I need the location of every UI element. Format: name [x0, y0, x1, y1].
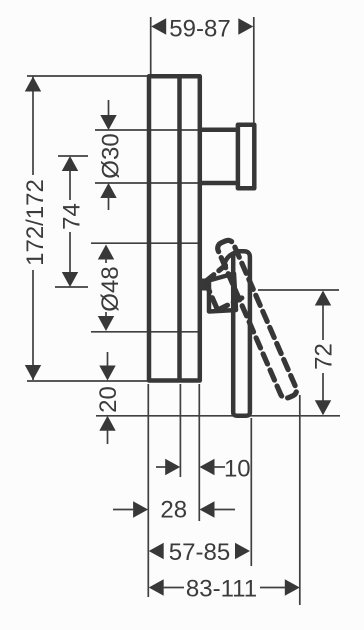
dashed sleeve	[203, 265, 243, 311]
wire: bottom extension x=199.3	[198, 384, 200, 521]
solid sleeve (handle base, closed)	[209, 274, 236, 312]
svg-text:10: 10	[224, 456, 251, 483]
plate: outer rectangle of concealed body	[149, 76, 200, 380]
wire: lever bottom extension y=415.8	[96, 415, 340, 417]
wire: bottom extension x=251.3	[250, 418, 252, 566]
dimension 172/172 left	[22, 77, 49, 381]
dimension 72 right	[311, 291, 338, 416]
cartridge bump on plate	[199, 279, 208, 291]
dimension diam30	[98, 100, 125, 210]
svg-text:28: 28	[160, 497, 187, 524]
dimension 57-85	[149, 539, 250, 566]
svg-text:Ø48: Ø48	[97, 266, 124, 311]
wire: bottom extension x=180.4	[179, 384, 181, 477]
wire: bottom extension x=148.3	[147, 384, 149, 597]
wire: bottom extension x=299.8	[299, 395, 301, 605]
pipe: top edge	[200, 128, 238, 133]
svg-text:83-111: 83-111	[186, 576, 257, 603]
solid lever (closed position)	[233, 251, 250, 416]
svg-text:59-87: 59-87	[169, 16, 230, 43]
svg-text:172/172: 172/172	[22, 179, 49, 266]
hook at lever top	[224, 252, 237, 266]
svg-text:74: 74	[59, 203, 86, 230]
wire: 74 bottom stub y=287	[55, 286, 88, 288]
wire: 74 top stub y=156	[58, 155, 88, 157]
svg-text:Ø30: Ø30	[98, 133, 125, 178]
wire: 72 top anchor y=290	[258, 289, 339, 291]
dimension 74	[59, 156, 86, 287]
dimension 20	[95, 352, 122, 444]
wire: diam48 top extension y=243.2	[91, 242, 199, 244]
svg-text:20: 20	[95, 386, 122, 413]
wire: 59-87 right extension x=253.8	[253, 17, 255, 123]
dimension diam48	[97, 245, 124, 332]
svg-text:57-85: 57-85	[169, 539, 230, 566]
dimension 59-87 top	[151, 16, 253, 43]
svg-text:72: 72	[311, 343, 338, 370]
wire: diam30 bottom extension y=183	[95, 182, 204, 184]
wire: bottom plate tick line y=381	[27, 380, 148, 382]
plate: inner vertical line	[177, 76, 182, 380]
dashed handle (open position), rotated about cartridge axis	[194, 239, 299, 410]
dimension 10	[156, 456, 251, 483]
cap rectangle at pipe end	[238, 125, 254, 189]
dimension 28	[113, 497, 235, 524]
dashed lever	[216, 239, 299, 400]
wire: top tick line y=76	[27, 75, 148, 77]
wire: diam30 top extension y=130	[95, 129, 204, 131]
dimension 83-111	[149, 576, 300, 603]
wire: diam48 bottom extension y=331.8	[91, 331, 199, 333]
wire: 59-87 left extension x=150.7	[150, 17, 152, 74]
pipe: bottom edge	[200, 181, 238, 186]
